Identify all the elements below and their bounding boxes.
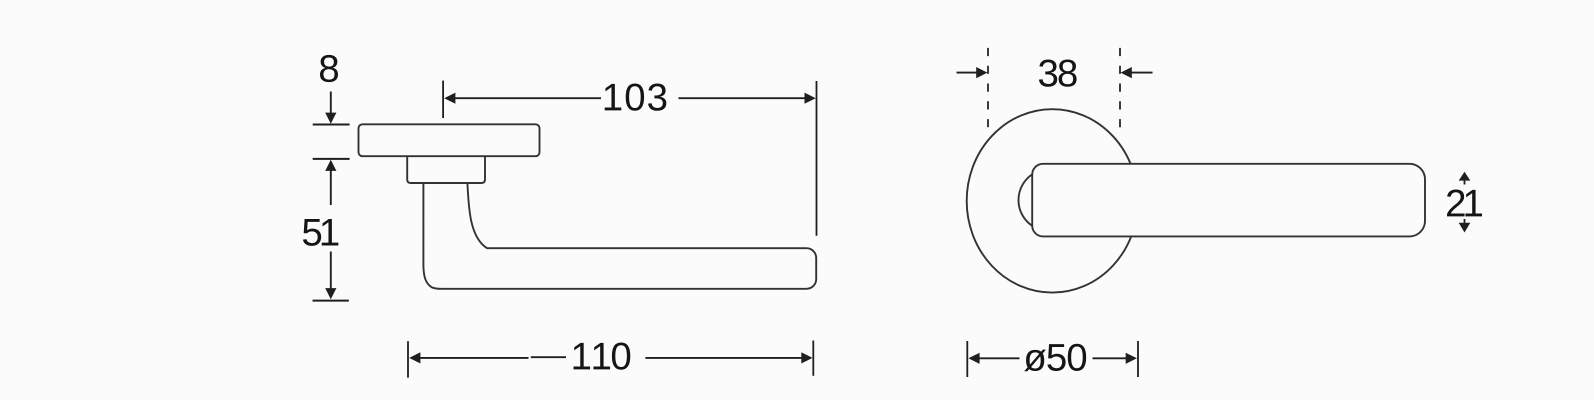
dimension 110: right extension line xyxy=(812,341,814,376)
dimension 38: right dashed line xyxy=(1119,48,1121,128)
dimension 103: left arrow and line xyxy=(444,93,455,104)
dimension 51: text xyxy=(303,219,338,246)
dimension 110: dash before text xyxy=(531,356,566,358)
rose (side view) xyxy=(359,124,540,156)
dimension o50: text xyxy=(1024,344,1086,372)
dimension 38: left dashed line xyxy=(987,48,989,128)
dimension 21: down triangle xyxy=(1464,219,1466,223)
dimension o50: left arrow and line xyxy=(968,353,979,364)
dimension 38: text xyxy=(1039,60,1077,87)
dimension 8: text xyxy=(320,55,338,82)
dimension 21: up triangle xyxy=(1459,172,1471,181)
dimension 103: text xyxy=(605,84,667,111)
dimension 103: right extension line xyxy=(816,81,818,236)
dimension o50: right line and arrow xyxy=(1093,357,1129,359)
dimension 38: right arrow pointing left xyxy=(1130,72,1153,74)
dimension 8: lower extension line xyxy=(313,158,350,160)
dimension 103: right line and arrow xyxy=(679,97,808,99)
dimension 51: up arrow xyxy=(330,171,332,206)
dimension 110: right line and arrow xyxy=(645,357,804,359)
rose circle (front view) xyxy=(967,109,1138,292)
dimension 21: text xyxy=(1447,190,1482,217)
lever (front view) xyxy=(1032,164,1425,237)
dimension 110: text xyxy=(574,343,631,370)
dimension 51: down arrow xyxy=(330,252,332,289)
neck (side view) xyxy=(407,156,485,183)
lever handle (side view) xyxy=(423,183,816,289)
dimension 8: down arrow xyxy=(330,92,332,114)
dimension 8: upper extension line xyxy=(313,124,350,126)
dimension 103: left extension line xyxy=(442,81,444,119)
dimension o50: right extension line xyxy=(1137,341,1139,377)
dimension 38: left arrow pointing right xyxy=(957,72,980,74)
dimension 51: bottom extension line xyxy=(313,300,349,302)
dimension o50: left extension line xyxy=(966,341,968,377)
dimension 110: left extension line xyxy=(407,341,409,378)
neck arc (front view) xyxy=(1018,175,1032,226)
dimension 110: left arrow and line xyxy=(409,352,420,363)
